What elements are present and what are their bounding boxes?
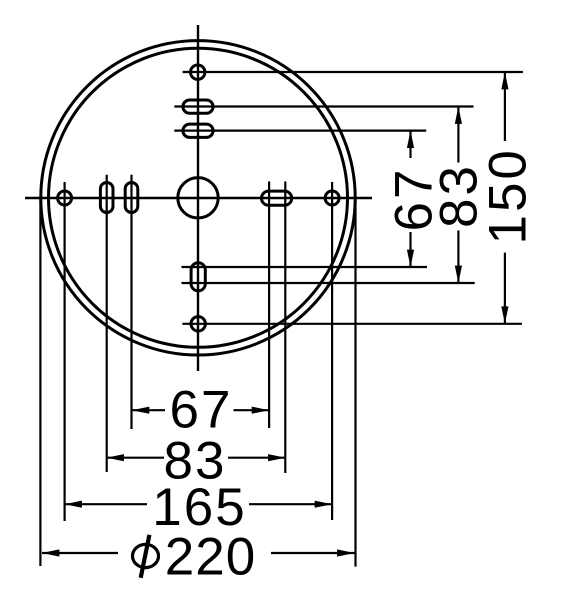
top hole circle	[191, 65, 205, 79]
bottom hole circle	[191, 317, 205, 331]
extension line right hole (165 right)	[331, 182, 333, 520]
extension line top slot 1 (83 top)	[174, 105, 473, 107]
horizontal dimension 165 line	[65, 501, 333, 508]
left slot 2	[125, 183, 138, 213]
left slot 1	[100, 183, 113, 213]
extension line right slot left side (67 right)	[268, 182, 270, 429]
horizontal dimension 67 label	[170, 381, 233, 440]
extension line top slot 2 (67 top)	[174, 130, 426, 132]
extension line left hole (165 left)	[63, 182, 65, 521]
outer plate circle φ220	[41, 41, 355, 355]
bottom slot	[191, 263, 205, 291]
vertical dimension 67 line	[407, 131, 414, 267]
vertical dimension 150 line	[501, 72, 508, 324]
extension line left slot 2 (67 left)	[130, 175, 132, 429]
extension line right slot right side (83 right)	[284, 182, 286, 474]
svg-text:150: 150	[479, 147, 538, 244]
vertical centerline	[197, 25, 199, 371]
vertical dimension 150 label	[479, 147, 538, 244]
horizontal dimension 67 line	[132, 407, 269, 414]
horizontal dimension φ220 label	[133, 527, 257, 586]
extension line top hole (150 top)	[183, 71, 523, 73]
top slot 2	[183, 124, 213, 137]
extension line bottom slot upper (67 bottom)	[182, 266, 428, 268]
center hole	[178, 178, 218, 218]
vertical dimension 67 label	[385, 167, 444, 232]
left hole circle	[58, 191, 72, 205]
right slot	[262, 191, 292, 205]
vertical dimension 83 label	[430, 163, 489, 228]
extension line φ220 left	[39, 198, 41, 566]
horizontal dimension 83 label	[164, 431, 227, 490]
extension line bottom hole (150 bottom)	[182, 323, 522, 325]
extension line φ220 right	[354, 198, 356, 567]
vertical dimension 83 line	[455, 107, 462, 284]
svg-text:220: 220	[165, 527, 256, 586]
horizontal dimension 165 label	[152, 478, 246, 537]
horizontal centerline	[25, 197, 372, 199]
inner plate circle	[49, 48, 348, 347]
right hole circle	[325, 191, 339, 205]
horizontal dimension φ220 line	[42, 549, 355, 556]
top slot 1	[183, 100, 213, 113]
extension line left slot 1 (83 left)	[106, 175, 108, 472]
horizontal dimension 83 line	[107, 454, 286, 461]
extension line bottom slot lower (83 bottom)	[182, 282, 475, 284]
